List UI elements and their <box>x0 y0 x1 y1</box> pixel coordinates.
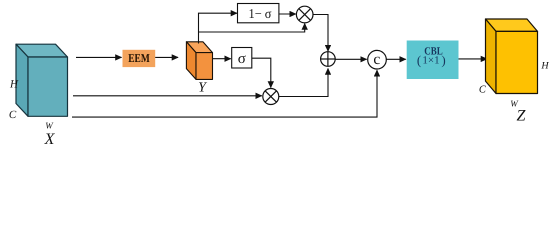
box sigma <box>232 48 252 69</box>
svg-text:C: C <box>479 85 487 96</box>
adder (circle-plus) <box>321 52 336 67</box>
svg-text:X: X <box>44 131 56 148</box>
wire Y to sigma box <box>213 58 231 60</box>
svg-text:Z: Z <box>517 108 527 125</box>
concat node c <box>368 50 387 69</box>
wire lower multiplier to adder <box>279 69 328 97</box>
svg-text:Y: Y <box>198 81 208 96</box>
top multiplier (circle-times) <box>296 6 313 23</box>
EEM block <box>123 50 156 67</box>
wire adder to concat <box>335 58 366 60</box>
svg-text:): ) <box>441 53 445 68</box>
wire concat to CBL <box>386 58 405 60</box>
svg-text:W: W <box>45 121 54 131</box>
wire sigma to lower multiplier <box>252 58 271 87</box>
wire top multiplier to adder <box>313 15 328 52</box>
svg-text:1− σ: 1− σ <box>249 6 273 21</box>
svg-text:(: ( <box>417 53 421 68</box>
wire 1-sigma to top multiplier <box>279 13 296 15</box>
output cuboid Z <box>486 19 538 94</box>
wire X to lower multiplier <box>73 95 262 97</box>
svg-text:1×1: 1×1 <box>422 55 439 67</box>
wire EEM to Y <box>155 56 178 58</box>
svg-text:C: C <box>9 109 17 121</box>
svg-text:σ: σ <box>238 51 246 67</box>
svg-text:H: H <box>9 79 19 91</box>
wire Y top to 1-sigma box <box>199 13 238 43</box>
svg-text:H: H <box>540 61 549 72</box>
wire Y branch to top multiplier <box>199 24 305 33</box>
wire X to EEM <box>76 56 122 58</box>
lower multiplier (circle-times) <box>263 89 279 105</box>
input cuboid X <box>16 44 68 116</box>
wire CBL to Z <box>459 58 488 60</box>
feature cuboid Y <box>186 42 212 80</box>
CBL block <box>407 41 459 80</box>
svg-text:c: c <box>373 51 380 68</box>
wire X skip connection to concat <box>72 70 377 117</box>
box 1-sigma <box>238 4 279 23</box>
svg-text:EEM: EEM <box>128 51 150 65</box>
